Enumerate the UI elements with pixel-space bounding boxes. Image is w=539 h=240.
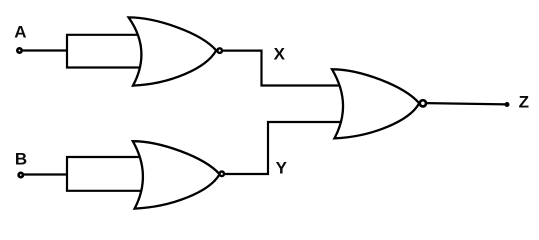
NOR gate U1 output bubble	[217, 48, 222, 53]
svg-text:A: A	[14, 23, 26, 42]
svg-text:Y: Y	[276, 158, 288, 177]
wire: NOR2 tied-input rectangle (input split to both gate pins)	[67, 157, 143, 191]
wire: NOR3 output to terminal Z	[427, 103, 508, 104]
wire: NOR1 tied-input rectangle (input split to both gate pins)	[67, 35, 142, 68]
wire: NOR1 output to node X and down to NOR3 top input	[223, 51, 345, 86]
NOR gate U3 output bubble	[420, 100, 426, 106]
NOR gate U1 body (A inverter)	[129, 17, 217, 85]
wire: NOR2 output to node Y and up to NOR3 bottom input	[225, 122, 346, 174]
NOR gate U2 output bubble	[220, 172, 225, 177]
NOR gate U2 body (B inverter)	[133, 141, 220, 208]
wire: input A to NOR1 tied-input rectangle	[20, 49, 68, 51]
svg-text:Z: Z	[519, 93, 529, 112]
input terminal A (ring)	[17, 48, 21, 52]
output terminal Z (dot)	[505, 102, 510, 107]
wire: input B to NOR2 tied-input rectangle	[21, 173, 68, 175]
svg-text:B: B	[15, 150, 27, 169]
NOR gate U3 body (output gate)	[332, 69, 419, 138]
input terminal B (ring)	[19, 173, 23, 177]
svg-text:X: X	[274, 45, 286, 64]
